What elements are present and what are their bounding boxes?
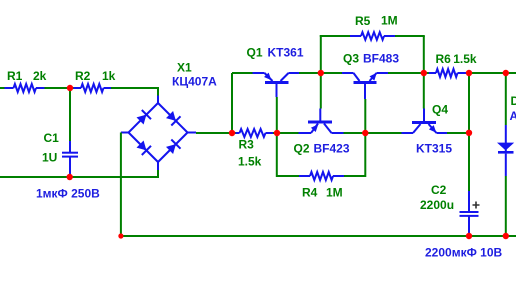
wire R4 right to Q3 base node <box>344 175 365 177</box>
svg-text:D1: D1 <box>511 94 516 108</box>
svg-text:R6: R6 <box>436 52 452 66</box>
wire rail from C1 bottom to bridge bottom <box>0 170 159 178</box>
svg-text:BF423: BF423 <box>314 142 350 156</box>
svg-text:1.5k: 1.5k <box>453 52 477 66</box>
resistor R2 <box>74 69 116 92</box>
wire Q2 collector to Q4 <box>344 132 402 134</box>
label KT315 <box>416 141 452 155</box>
node R1-R2-C1 junction <box>67 85 73 91</box>
node Q3 base junction <box>362 130 368 136</box>
bridge diode left-bottom <box>137 141 152 156</box>
svg-text:KT315: KT315 <box>416 141 452 155</box>
wire Q1 emitter branch vertical <box>231 73 233 133</box>
svg-text:2200u: 2200u <box>420 198 454 212</box>
svg-text:АЛ307: АЛ307 <box>510 109 516 123</box>
wire Q3 base down <box>364 99 366 133</box>
wire LED to bottom rail <box>505 176 507 236</box>
capacitor C2 <box>420 183 480 236</box>
wire Q1 base to R3 node <box>276 97 278 133</box>
label BF483 <box>363 52 399 66</box>
label D value clipped at edge <box>510 109 516 123</box>
node A collector junction <box>318 70 324 76</box>
svg-text:KT361: KT361 <box>268 46 304 60</box>
wire output node down to C2 <box>468 73 470 191</box>
transistor Q4 KT315 NPN <box>402 109 448 134</box>
wire node A up to R5 <box>320 35 350 73</box>
svg-text:C2: C2 <box>431 183 447 197</box>
node C2 bottom junction <box>466 233 472 239</box>
svg-text:X1: X1 <box>177 61 192 75</box>
svg-text:Q4: Q4 <box>432 103 448 117</box>
resistor R4 <box>299 172 344 200</box>
node Q4 emitter output junction <box>466 130 472 136</box>
node R3-Q1 base junction <box>274 130 280 136</box>
svg-text:R4: R4 <box>302 186 318 200</box>
wire bridge plus to R3 <box>196 132 236 134</box>
node bottom rail left corner <box>118 233 123 238</box>
bridge diode left-top <box>137 110 152 125</box>
bridge rectifier X1 KC407A diamond <box>121 96 196 171</box>
wire top AC input left <box>0 87 5 89</box>
wire Q4 base up to node B <box>423 73 425 109</box>
resistor R5 <box>350 14 398 40</box>
resistor R1 <box>5 69 47 92</box>
bridge diode bottom-right <box>166 140 181 155</box>
wire R5 to node B <box>395 36 425 73</box>
svg-text:Q1: Q1 <box>247 46 263 60</box>
label BF423 <box>314 142 350 156</box>
wire bottom ground rail <box>121 235 516 237</box>
svg-text:2200мкФ 10В: 2200мкФ 10В <box>425 245 503 259</box>
svg-text:КЦ407А: КЦ407А <box>172 75 217 89</box>
transistor Q2 BF423 PNP <box>299 109 344 134</box>
svg-text:Q3: Q3 <box>343 52 359 66</box>
svg-text:R1: R1 <box>7 69 23 83</box>
wire R2 to bridge top <box>111 87 159 96</box>
wire Q1 collector to node A <box>299 72 342 74</box>
diode D LED <box>497 125 514 176</box>
svg-text:BF483: BF483 <box>363 52 399 66</box>
svg-text:R3: R3 <box>239 138 255 152</box>
resistor R3 <box>236 129 274 169</box>
svg-text:Q2: Q2 <box>294 142 310 156</box>
bridge diode top-right <box>166 111 181 126</box>
node C1 bottom junction <box>67 174 73 180</box>
wire bridge minus to bottom rail <box>120 133 122 237</box>
resistor R6 <box>429 52 477 77</box>
transistor Q1 KT361 PNP <box>232 73 299 97</box>
label Q2 <box>294 142 310 156</box>
node B junction <box>421 70 427 76</box>
transistor Q3 BF483 NPN <box>342 73 388 99</box>
wire Q2 base up to node A <box>320 73 322 109</box>
node LED branch junction <box>503 70 509 76</box>
svg-text:1M: 1M <box>326 186 343 200</box>
capacitor C1 <box>42 88 78 177</box>
node LED bottom junction <box>503 233 509 239</box>
svg-text:1k: 1k <box>102 69 116 83</box>
label Q3 <box>343 52 359 66</box>
svg-text:1U: 1U <box>42 151 57 165</box>
wire Q3 emitter to node B <box>388 72 429 74</box>
wire Q4 emitter to output node <box>447 132 469 134</box>
wire R1 to R2 <box>45 87 74 89</box>
wire LED branch down <box>505 73 507 125</box>
label KT361 <box>268 46 304 60</box>
node R6 output junction <box>466 70 472 76</box>
wire R3 to Q2 emitter <box>273 132 299 134</box>
svg-text:1мкФ 250В: 1мкФ 250В <box>36 187 100 201</box>
svg-text:R2: R2 <box>75 69 91 83</box>
svg-text:1.5k: 1.5k <box>238 155 262 169</box>
wire Q3 base node to R4 right <box>364 133 366 177</box>
svg-text:1M: 1M <box>381 14 398 28</box>
label Q4 <box>432 103 448 117</box>
svg-text:C1: C1 <box>44 131 60 145</box>
label C2 value 2200mkF 10V <box>425 245 503 259</box>
label KC407A <box>172 75 217 89</box>
node Q1 emitter junction <box>229 130 235 136</box>
svg-text:R5: R5 <box>355 14 371 28</box>
label C1 value 1mkF 250V <box>36 187 100 201</box>
wire R6 right to top right edge <box>466 72 516 74</box>
svg-text:2k: 2k <box>33 69 47 83</box>
label D designator clipped at edge <box>511 94 516 108</box>
wire Q1 base node down to R4 <box>277 133 299 177</box>
label Q1 <box>247 46 263 60</box>
label X1 <box>177 61 192 75</box>
